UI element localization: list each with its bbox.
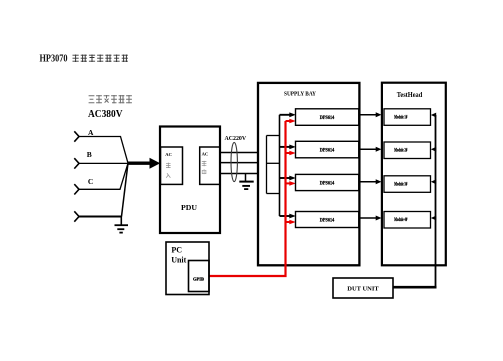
TestHead box	[382, 83, 446, 266]
svg-text:DUT UNIT: DUT UNIT	[347, 286, 379, 293]
red stub to DPS 4	[286, 221, 291, 223]
svg-text:DPS614: DPS614	[320, 182, 335, 187]
title CJK 系統電源配線圖	[73, 55, 128, 63]
terminal N	[74, 211, 79, 221]
label 三相交流電源 (gray)	[89, 95, 132, 103]
ground (left, neutral)	[115, 217, 129, 233]
AC-in char 輸	[166, 163, 171, 168]
supply module DPS614 #2	[296, 141, 359, 158]
testhead module 4	[384, 212, 431, 229]
PC Unit box	[166, 242, 209, 295]
PDU AC-out box	[200, 147, 220, 184]
arrow into module 1 right	[434, 114, 436, 116]
svg-text:TestHead: TestHead	[397, 90, 423, 99]
black stub to DPS 2	[280, 146, 291, 148]
ground (cable shield)	[239, 174, 253, 190]
testhead module 1	[384, 109, 431, 126]
wire DPS3 to TestHead	[359, 181, 377, 183]
svg-text:Unit: Unit	[171, 255, 186, 264]
AC220V output line 1	[220, 152, 259, 154]
svg-text:Module 2#: Module 2#	[394, 149, 407, 154]
wire DPS1 to TestHead	[359, 114, 377, 116]
testhead module 3	[384, 176, 431, 193]
wire phase C	[79, 163, 128, 189]
svg-text:AC380V: AC380V	[88, 108, 123, 120]
arrow into module 2 right	[434, 148, 436, 150]
wire convergence to ground junction	[122, 163, 129, 216]
red stub to DPS 1	[286, 120, 291, 122]
wire phase A	[79, 137, 128, 164]
red stub to DPS 3	[286, 182, 291, 184]
red control bus	[210, 121, 286, 276]
wire phase B	[79, 162, 128, 164]
wire neutral	[79, 216, 122, 218]
SUPPLY BAY box	[258, 83, 359, 265]
wire testhead bus to DUT UNIT	[393, 286, 437, 289]
svg-text:AC220V: AC220V	[224, 135, 246, 142]
AC-out char 出	[202, 169, 206, 174]
terminal B	[74, 158, 79, 168]
black stub to DPS 4	[280, 215, 291, 217]
svg-text:SUPPLY BAY: SUPPLY BAY	[284, 92, 317, 98]
svg-text:A: A	[88, 128, 94, 137]
black distribution bus	[279, 115, 281, 216]
supply module DPS614 #3	[296, 174, 359, 190]
wire DPS4 to TestHead	[359, 217, 377, 219]
title HP3070	[40, 54, 68, 65]
svg-text:AC: AC	[165, 152, 172, 157]
terminal A	[74, 131, 79, 141]
svg-text:PDU: PDU	[181, 203, 197, 212]
black stub to DPS 1	[280, 114, 291, 116]
supply module DPS614 #1	[296, 109, 359, 126]
arrow into module 4 right	[434, 217, 436, 219]
svg-text:GPIB: GPIB	[193, 276, 204, 281]
svg-text:Module 3#: Module 3#	[394, 183, 407, 188]
red stub to DPS 2	[286, 152, 291, 154]
supply module DPS614 #4	[296, 212, 359, 228]
DUT UNIT box	[333, 278, 393, 298]
terminal C	[74, 184, 79, 194]
svg-text:B: B	[87, 150, 92, 159]
testhead module 2	[384, 142, 431, 159]
big feed arrow into PDU	[128, 158, 160, 169]
black stub to DPS 3	[280, 177, 291, 179]
junction box	[267, 136, 280, 194]
svg-text:AC: AC	[202, 151, 209, 156]
svg-text:Module 4#: Module 4#	[394, 218, 407, 223]
AC220V output line 2	[220, 162, 259, 164]
svg-text:C: C	[88, 177, 93, 186]
svg-text:DPS614: DPS614	[320, 116, 335, 121]
svg-text:PC: PC	[171, 245, 182, 254]
cable ellipse	[231, 142, 237, 181]
PDU box	[160, 127, 220, 234]
testhead bus wire	[435, 115, 437, 288]
AC-out char 輸	[202, 161, 207, 166]
svg-text:DPS614: DPS614	[320, 149, 335, 154]
wire DPS2 to TestHead	[359, 148, 377, 150]
svg-text:DPS614: DPS614	[320, 219, 335, 224]
arrow into module 3 right	[434, 181, 436, 183]
GPIB box	[189, 261, 210, 292]
svg-text:Module 1#: Module 1#	[394, 116, 407, 121]
AC-in char 入	[166, 173, 170, 178]
AC220V output line 3	[220, 173, 259, 175]
PDU AC-in box	[161, 147, 183, 184]
svg-text:HP3070: HP3070	[40, 54, 68, 65]
